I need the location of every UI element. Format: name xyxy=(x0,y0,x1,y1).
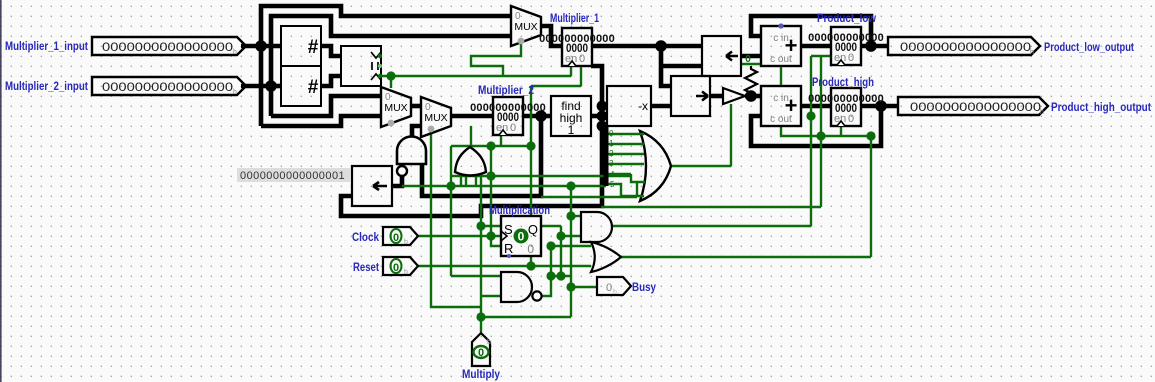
wire negator out to shifter S2 in1 xyxy=(651,104,671,109)
svg-text:Product_low_output: Product_low_output xyxy=(1044,40,1134,54)
svg-text:h: h xyxy=(1040,109,1044,116)
wire into FF S input xyxy=(481,225,501,227)
wire net input2 lower run to MUX U1 in0 xyxy=(271,96,381,116)
input pin Clock xyxy=(383,227,418,245)
adder A1 xyxy=(761,26,801,66)
wire counter out to AND G1 inverted input xyxy=(392,176,402,186)
wire jog up to MUX U3 select xyxy=(471,42,521,76)
wire adder A2 out to register Product_high xyxy=(801,104,831,109)
wire register Multiplier_1 out to shifter S1 xyxy=(591,44,702,49)
wire M1 clock stub xyxy=(570,66,572,76)
wire Multiply branch right xyxy=(481,316,571,318)
shifter S2 shift-right xyxy=(671,76,710,116)
wire input1 to bus xyxy=(241,44,261,49)
wire net input1 lower run to MUX U1 in1 xyxy=(261,116,381,126)
svg-text:5: 5 xyxy=(610,180,615,189)
green junction (451,186) xyxy=(446,181,455,190)
green junction (481,226) xyxy=(476,221,485,230)
svg-text:0: 0 xyxy=(579,53,585,65)
green junction (871,136) xyxy=(866,131,875,140)
wire E1 out to comparator in0 xyxy=(321,46,341,56)
wire row y276 xyxy=(551,275,571,277)
svg-text:Reset: Reset xyxy=(353,260,379,274)
wire net input2: inner top run to MUX U3 in1 xyxy=(271,16,511,116)
svg-text:Product_high: Product_high xyxy=(812,75,874,89)
wire clock column up to registers xyxy=(490,146,492,236)
counter C1 xyxy=(352,166,392,206)
green junction (811,116) xyxy=(806,111,815,120)
register Product_high xyxy=(831,88,861,126)
svg-text:Clock: Clock xyxy=(352,230,379,244)
wire register Multiplier_2 out to find-high xyxy=(523,114,551,119)
svg-text:Multiplier_1: Multiplier_1 xyxy=(550,11,599,25)
wire Multiply pin up xyxy=(480,307,482,332)
input pin Multiply xyxy=(472,333,490,366)
wire OR G3 input stub a xyxy=(460,174,462,186)
svg-text:Product_low: Product_low xyxy=(817,11,877,25)
input pin Reset xyxy=(383,257,418,275)
svg-text:Multiplier_2_input: Multiplier_2_input xyxy=(5,79,88,93)
wire long run y186 across to splitter foot xyxy=(402,185,606,187)
wire AND G1 out to MUX U2 in1 xyxy=(412,126,421,136)
wire main bus column x602 down and around to counter input xyxy=(341,66,602,216)
wire input2 to bus xyxy=(241,84,271,89)
bit extender E1 xyxy=(281,26,321,66)
svg-text:Multiply: Multiply xyxy=(462,367,500,381)
wire MUX U3 out to register Multiplier_1 xyxy=(541,26,562,46)
SR flip-flop FF1 xyxy=(501,216,541,256)
wire into Busy pin xyxy=(571,286,597,288)
green junction (391,76) xyxy=(386,71,395,80)
wire input1 stub into extender E1 xyxy=(261,44,281,49)
wire into OR G4 in0 xyxy=(551,245,591,247)
svg-text:0000000000000000: 0000000000000000 xyxy=(102,40,233,54)
wire M2 clock to row xyxy=(500,136,502,146)
pull resistor R1 xyxy=(745,66,757,96)
OR gate G3 points up xyxy=(455,147,486,176)
NAND gate G5 xyxy=(501,272,532,302)
adder A1 cin pin xyxy=(778,23,783,28)
svg-text:0: 0 xyxy=(609,129,614,138)
shifter S1 shift-left xyxy=(702,36,741,76)
wire column x451 down to NAND row xyxy=(450,146,452,276)
wire MUX U2 enable down to Multiply net xyxy=(431,128,481,307)
multiplexer U2 xyxy=(421,97,451,137)
input pin Multiplier_1_input xyxy=(92,37,246,55)
svg-text:h: h xyxy=(1030,49,1034,56)
wire feeder vertical xyxy=(636,182,638,197)
wire row y86 to M2 column xyxy=(531,85,581,87)
U3 enable pin xyxy=(518,38,525,45)
wire Product_low feedback to adder A1 in0 xyxy=(751,16,871,46)
svg-text:h: h xyxy=(233,49,237,56)
input pin Multiplier_2_input xyxy=(92,77,246,95)
wire long column x571 xyxy=(570,186,572,317)
wire M1 enable stub xyxy=(580,66,582,86)
junction Product_high output xyxy=(875,100,887,112)
multiplexer U3 xyxy=(511,6,541,46)
wire into AND G2 in1 xyxy=(561,235,581,237)
svg-text:Multiplication: Multiplication xyxy=(489,203,550,217)
svg-text:0: 0 xyxy=(848,113,854,125)
wire feeder into splitter leg jog xyxy=(541,196,637,198)
bit extender E2 xyxy=(281,66,321,106)
wire OR G3 input stub c xyxy=(475,176,477,186)
negator -x xyxy=(607,86,651,126)
wire x811 column xyxy=(810,56,812,226)
svg-text:Multiplier_1_input: Multiplier_1_input xyxy=(5,39,88,53)
svg-text:R: R xyxy=(504,241,513,256)
register Multiplier_2 xyxy=(493,97,523,135)
wire bus to negator xyxy=(602,104,607,109)
wire E2 out to comparator in1 xyxy=(321,76,341,86)
svg-text:b: b xyxy=(487,339,491,346)
U2 enable pin xyxy=(428,126,435,133)
wire x871 column down xyxy=(870,136,872,257)
green junction (491,146) xyxy=(486,141,495,150)
svg-text:b: b xyxy=(613,289,617,296)
green junction (551,276) xyxy=(546,271,555,280)
svg-text:0000000000000000: 0000000000000000 xyxy=(900,40,1031,54)
wire shifter S2 out to buffer B1 xyxy=(710,94,723,99)
wire into AND G2 in0 xyxy=(571,215,581,217)
wire Q column down xyxy=(560,226,562,276)
svg-text:4: 4 xyxy=(610,170,615,179)
junction M1 output bus xyxy=(655,40,667,52)
wire MUX U2 out to register Multiplier_2 xyxy=(451,114,493,119)
wire into FF R input xyxy=(491,236,501,246)
wire M2 out bus down-left to AND G1 in1 xyxy=(422,116,541,196)
multiplexer U1 xyxy=(381,87,411,127)
AND gate G2 xyxy=(581,212,612,242)
wire long run y207 to x821 column xyxy=(601,206,821,208)
svg-text:Product_high_output: Product_high_output xyxy=(1051,100,1151,114)
green junction (491,236) xyxy=(486,231,495,240)
svg-text:b: b xyxy=(404,269,408,276)
svg-text:c out: c out xyxy=(770,114,792,125)
green junction (571,287) xyxy=(566,282,575,291)
junction M2 output xyxy=(535,110,547,122)
green junction (571,216) xyxy=(566,211,575,220)
wire buffer B1 out to adder A2 xyxy=(745,94,761,99)
svg-text:0: 0 xyxy=(527,242,534,256)
output pin Product_low_output xyxy=(888,37,1040,55)
wire to shifter S1 in1 xyxy=(661,64,702,69)
svg-text:3: 3 xyxy=(609,159,614,168)
window left border xyxy=(0,0,2,382)
register Product_low xyxy=(831,27,861,65)
wire register Product_high out to pin xyxy=(861,104,898,109)
register Multiplier_1 xyxy=(562,28,592,66)
wire OR G6 output xyxy=(671,165,731,167)
svg-text:#: # xyxy=(308,77,319,98)
svg-text:1: 1 xyxy=(609,139,614,148)
comparator U4 xyxy=(341,46,381,86)
wire net input1: up over top to MUX U3 in0 xyxy=(261,6,511,126)
green junction (481,317) xyxy=(476,312,485,321)
wire into NAND G5 in1 xyxy=(481,295,501,297)
adder A2 xyxy=(761,86,801,126)
wire Product_high clock stub xyxy=(840,126,842,136)
green junction (571,186) xyxy=(566,181,575,190)
counter C1 value label xyxy=(237,168,351,182)
svg-text:Busy: Busy xyxy=(632,280,656,294)
wire row y76 comparator/clock xyxy=(381,75,571,77)
wire comparator to MUX U1 select xyxy=(390,76,392,88)
svg-text:0: 0 xyxy=(510,122,516,134)
junction bus tap negator xyxy=(597,101,608,112)
wire adder A2 cout run to x871 xyxy=(781,126,871,136)
output pin Product_high_output xyxy=(898,97,1048,115)
wire Product_high feedback to adder A2 in1 xyxy=(751,106,881,146)
svg-text:-x: -x xyxy=(638,99,648,113)
wire OR G3 input stub b xyxy=(465,176,467,186)
wire OR G3 output up xyxy=(470,126,472,147)
svg-text:Multiplier_2: Multiplier_2 xyxy=(478,83,534,97)
svg-text:Q: Q xyxy=(528,222,538,237)
wire x821 column xyxy=(820,56,822,207)
green junction (531,266) xyxy=(526,261,535,270)
splitter SP1 spine xyxy=(604,126,609,186)
wire FF Qbar stub xyxy=(530,256,532,266)
svg-text:h: h xyxy=(233,89,237,96)
svg-text:0000000000000000: 0000000000000000 xyxy=(910,100,1041,114)
green junction (821,136) xyxy=(816,131,825,140)
svg-text:0: 0 xyxy=(478,347,484,359)
wire register Product_low out to pin xyxy=(861,44,888,49)
svg-text:0: 0 xyxy=(393,232,399,244)
wire Multiply up to FF S row xyxy=(480,226,482,307)
wire shifter S1 out to adder A1 xyxy=(741,54,761,59)
svg-text:#: # xyxy=(308,37,319,58)
wire bus down to shifter S2 in0 xyxy=(661,46,671,86)
svg-text:MUX: MUX xyxy=(424,112,447,124)
wire Clock pin to FF clock xyxy=(417,235,501,237)
svg-text:c out: c out xyxy=(770,54,792,65)
OR gate G6 multi-input xyxy=(640,131,671,201)
svg-text:0000000000000001: 0000000000000001 xyxy=(240,170,345,182)
AND gate G1 points up xyxy=(397,137,426,165)
wire AND G2 out run xyxy=(611,225,811,227)
junction input1 bus xyxy=(255,40,267,52)
output pin Busy xyxy=(597,277,631,295)
wire Reset pin run to OR G4 in1 xyxy=(417,265,591,267)
wire FF Q out xyxy=(541,225,561,227)
svg-text:0: 0 xyxy=(518,230,525,244)
svg-text:2: 2 xyxy=(609,149,614,158)
G1 right input stub xyxy=(421,164,424,170)
svg-text:b: b xyxy=(404,239,408,246)
green junction (551,246) xyxy=(546,241,555,250)
junction buffer/resistor node xyxy=(745,90,757,102)
svg-text:0: 0 xyxy=(606,282,612,294)
svg-text:0: 0 xyxy=(393,262,399,274)
junction Product_low output xyxy=(865,40,877,52)
green junction (561,276) xyxy=(556,271,565,280)
svg-text:0000000000000000: 0000000000000000 xyxy=(102,80,233,94)
wire into NAND G5 in0 xyxy=(451,275,501,277)
wire to Product_low enable xyxy=(811,55,831,57)
wire bus to splitter xyxy=(602,124,606,129)
wire find-high out to bus xyxy=(591,114,602,119)
wire long column x531 xyxy=(530,86,532,216)
wire MUX U1 out to MUX U2 xyxy=(411,104,421,109)
wire clock row under M2 xyxy=(451,145,531,147)
splitter SP1 legs xyxy=(608,133,644,135)
U1 enable pin (unconnected) xyxy=(388,120,395,127)
wire OR G6 out up to buffer enable xyxy=(730,104,732,166)
svg-text:1: 1 xyxy=(568,123,575,137)
OR gate G4 xyxy=(591,242,621,272)
wire NAND G5 out up column x551 xyxy=(541,246,551,296)
wire OR G3 right input column xyxy=(480,175,482,226)
junction bus tap find-high xyxy=(597,111,608,122)
green junction (491,176) xyxy=(486,171,495,180)
svg-text:MUX: MUX xyxy=(384,102,407,114)
wire long run y176 to splitter leg feeder xyxy=(451,175,631,177)
svg-text:MUX: MUX xyxy=(514,21,537,33)
svg-text:0: 0 xyxy=(745,54,751,65)
wire adder A1 out to register Product_low xyxy=(801,44,831,49)
find high 1 unit xyxy=(551,96,591,136)
green junction (561,236) xyxy=(556,231,565,240)
junction input2 bus xyxy=(265,80,277,92)
controlled buffer B1 xyxy=(723,88,745,104)
wire adder A1 cout to adder A2 cin xyxy=(780,66,782,86)
green junction (531,146) xyxy=(526,141,535,150)
wire input2 stub into extender E2 xyxy=(271,84,281,89)
svg-text:0: 0 xyxy=(848,52,854,64)
wire OR G4 output run xyxy=(621,256,871,258)
junction bus tap splitter xyxy=(597,121,608,132)
